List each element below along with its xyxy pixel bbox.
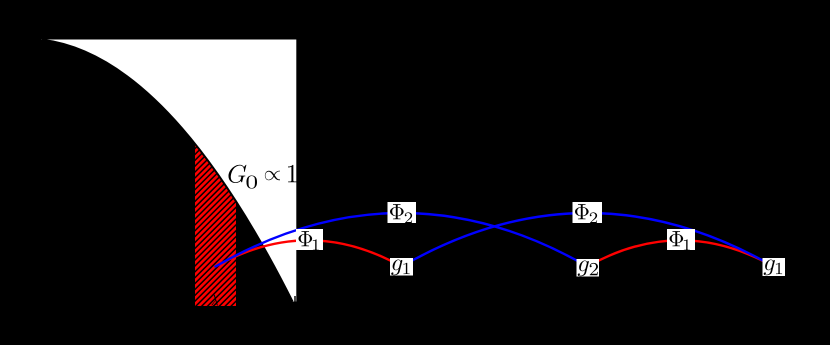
lambda label: [211, 295, 217, 306]
label G0 prop 1: [228, 165, 296, 189]
red arc 1 (Phi1: S to g1): [216, 240, 402, 266]
label g2: [577, 259, 600, 277]
label Phi2 right: [573, 202, 603, 223]
white plot panel: [42, 40, 297, 302]
curve stroke: [42, 40, 293, 302]
label Phi2 left: [388, 202, 417, 223]
label Phi1 left: [296, 229, 323, 250]
label Phi1 right: [667, 229, 695, 250]
label g1 right: [763, 258, 786, 276]
blue arc 1 (Phi2: S to g2): [216, 213, 588, 267]
black filled curve region (area under G0 curve): [40, 40, 293, 304]
axis tick at bottom-right of panel: [294, 296, 295, 306]
red arc 2 (Phi1: g2 to g1): [588, 240, 774, 266]
blue arc 2 (Phi2: g1 to g1): [402, 213, 774, 267]
red hatched strip under curve: [42, 40, 293, 306]
label g1 left: [390, 258, 413, 276]
